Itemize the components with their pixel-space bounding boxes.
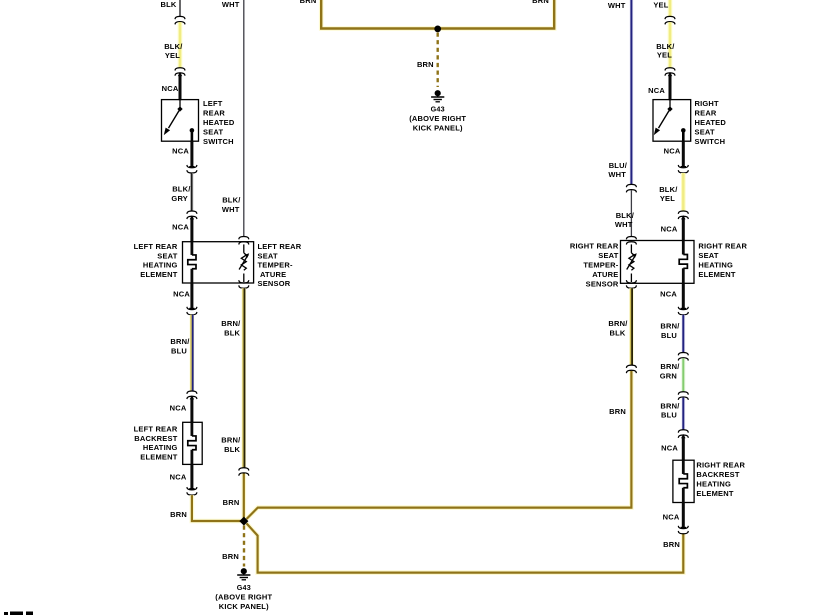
left rear seat heating element / temp sensor box (183, 242, 254, 283)
svg-text:SWITCH: SWITCH (203, 137, 234, 146)
connector (left BLK to BLK/YEL) (175, 16, 185, 19)
wire NCA from right switch output (682, 141, 685, 167)
footer text fragment (clipped) (4, 612, 8, 615)
svg-text:BLK/: BLK/ (659, 185, 678, 194)
svg-text:YEL: YEL (165, 51, 180, 60)
wire BLK/YEL left (178, 22, 183, 67)
connector (BLK/GRY to NCA) (187, 211, 197, 214)
wire BRN into ground junction (242, 474, 247, 519)
svg-text:WHT: WHT (222, 205, 240, 214)
wire BRN left backrest to ground junction (192, 495, 242, 521)
svg-text:HEATING: HEATING (143, 443, 178, 452)
svg-text:BLU: BLU (661, 331, 677, 340)
wire BRN/BLU left (190, 315, 195, 391)
wire NCA from right backrest element (682, 503, 685, 528)
ground G43 (bottom) (241, 568, 247, 574)
temperature sensor symbol (right rear seat) (630, 244, 632, 253)
svg-text:BRN: BRN (532, 0, 549, 5)
svg-text:SWITCH: SWITCH (695, 137, 726, 146)
wire NCA from left backrest element (190, 464, 193, 489)
wire BRN/BLU right lower (681, 398, 685, 430)
svg-text:GRY: GRY (171, 194, 188, 203)
svg-text:YEL: YEL (653, 1, 668, 10)
wire NCA into right backrest element (682, 437, 685, 461)
temperature sensor symbol (left rear seat) (243, 244, 245, 253)
ground G43 (top) (435, 90, 441, 96)
svg-text:BLK: BLK (609, 329, 625, 338)
svg-text:YEL: YEL (660, 194, 675, 203)
svg-text:SEAT: SEAT (157, 251, 177, 260)
svg-text:NCA: NCA (648, 86, 665, 95)
connector (right sensor top) (626, 237, 636, 240)
connector (right switch out) (678, 165, 688, 168)
svg-text:TEMPER-: TEMPER- (583, 261, 618, 270)
svg-text:NCA: NCA (162, 84, 179, 93)
svg-text:NCA: NCA (172, 147, 189, 156)
wire BRN bottom run to right sensor (247, 371, 632, 519)
node on top bus (434, 26, 441, 33)
svg-text:BRN/: BRN/ (660, 322, 680, 331)
connector (BRN/BLK to BRN left) (239, 468, 249, 471)
svg-text:LEFT REAR: LEFT REAR (258, 242, 302, 251)
wire BRN dashed to ground G43 (top) (437, 33, 439, 88)
svg-text:TEMPER-: TEMPER- (258, 261, 293, 270)
svg-text:BRN: BRN (417, 60, 434, 69)
wire NCA into left switch (179, 74, 182, 100)
svg-text:NCA: NCA (664, 147, 681, 156)
svg-text:BLK/: BLK/ (164, 42, 183, 51)
svg-text:NCA: NCA (661, 444, 678, 453)
svg-text:ELEMENT: ELEMENT (696, 489, 733, 498)
connector (left element to BRN/BLU) (187, 307, 197, 310)
svg-text:ATURE: ATURE (592, 270, 618, 279)
svg-text:KICK PANEL): KICK PANEL) (219, 602, 269, 611)
svg-text:ELEMENT: ELEMENT (140, 270, 177, 279)
wire BRN/BLK left sensor output (242, 288, 247, 467)
connector (right backrest out) (678, 526, 688, 529)
svg-text:SENSOR: SENSOR (258, 279, 291, 288)
svg-text:BLU: BLU (171, 346, 187, 355)
svg-text:BLK/: BLK/ (222, 196, 241, 205)
wire YEL (right, from fuse block) (668, 0, 673, 16)
right rear seat heating element / temp sensor box (621, 241, 695, 284)
svg-text:NCA: NCA (661, 225, 678, 234)
wire NCA from right heating element (682, 283, 685, 309)
svg-text:REAR: REAR (695, 108, 717, 117)
right rear heated seat switch box (653, 100, 691, 142)
svg-text:NCA: NCA (663, 513, 680, 522)
svg-text:BACKREST: BACKREST (696, 470, 739, 479)
svg-text:KICK PANEL): KICK PANEL) (413, 124, 463, 133)
wire BRN dashed to ground G43 (bottom) (243, 526, 245, 567)
svg-text:(ABOVE RIGHT: (ABOVE RIGHT (409, 114, 466, 123)
connector (left sensor top) (239, 237, 249, 240)
svg-text:NCA: NCA (170, 404, 187, 413)
svg-text:YEL: YEL (657, 51, 672, 60)
wire NCA from left heating element (190, 283, 193, 309)
svg-text:BACKREST: BACKREST (134, 434, 177, 443)
switch contacts (right rear heated seat switch) (669, 100, 671, 108)
svg-text:NCA: NCA (173, 289, 190, 298)
wire BRN/BLK right sensor output (629, 288, 634, 365)
wire BRN bottom run to right backrest (247, 523, 684, 572)
connector (left BLK/YEL to switch pigtail) (175, 68, 185, 71)
svg-text:BRN/: BRN/ (660, 402, 680, 411)
svg-text:REAR: REAR (203, 108, 225, 117)
svg-text:WHT: WHT (608, 170, 626, 179)
svg-text:BLU: BLU (661, 410, 677, 419)
svg-text:SENSOR: SENSOR (586, 280, 619, 289)
svg-text:BRN/: BRN/ (608, 319, 628, 328)
heating element symbol (left rear backrest) (190, 422, 193, 436)
svg-text:BLK: BLK (224, 329, 240, 338)
wire color and component labels (134, 0, 748, 611)
svg-text:BRN: BRN (609, 407, 626, 416)
heating element symbol (left rear seat) (190, 242, 193, 255)
connector (BRN/BLU to BRN/GRN) (678, 353, 688, 356)
svg-text:G43: G43 (431, 105, 445, 114)
wire BRN/BLU right upper (681, 315, 685, 353)
wire BLK/YEL right upper (668, 22, 673, 67)
svg-text:WHT: WHT (222, 0, 240, 9)
svg-text:SEAT: SEAT (203, 127, 223, 136)
connector (right BLK/YEL to NCA) (678, 211, 688, 214)
svg-text:NCA: NCA (170, 473, 187, 482)
svg-text:(ABOVE RIGHT: (ABOVE RIGHT (215, 593, 272, 602)
svg-text:ELEMENT: ELEMENT (698, 270, 735, 279)
svg-text:BRN/: BRN/ (221, 435, 241, 444)
svg-text:BRN/: BRN/ (660, 362, 680, 371)
svg-text:SEAT: SEAT (698, 251, 718, 260)
connector (BLU/WHT to BLK/WHT) (626, 184, 636, 187)
heating element symbol (right rear seat) (682, 241, 685, 255)
svg-text:SEAT: SEAT (695, 127, 715, 136)
right rear backrest heating element box (673, 460, 694, 502)
svg-text:LEFT: LEFT (203, 99, 223, 108)
wire BRN top bus (321, 0, 554, 29)
wire BRN/GRN right (681, 358, 685, 391)
switch contacts (left rear heated seat switch) (179, 100, 181, 108)
svg-text:ATURE: ATURE (260, 270, 286, 279)
svg-text:RIGHT REAR: RIGHT REAR (698, 242, 747, 251)
svg-text:LEFT REAR: LEFT REAR (134, 242, 178, 251)
wire BLK/WHT right (630, 190, 632, 236)
svg-text:NCA: NCA (172, 222, 189, 231)
svg-text:WHT: WHT (608, 1, 626, 10)
connector (left switch out) (187, 165, 197, 168)
wire BLU/WHT right sensor feed (630, 0, 634, 184)
wire NCA from left switch output (190, 141, 193, 167)
svg-text:BRN/: BRN/ (221, 319, 241, 328)
svg-text:HEATING: HEATING (143, 261, 178, 270)
wire NCA into right heating element (682, 218, 685, 241)
svg-text:BRN: BRN (170, 510, 187, 519)
connector (right element to BRN/BLU) (678, 307, 688, 310)
connector (right BLK/YEL to switch pigtail) (665, 68, 675, 71)
connector (right YEL to BLK/YEL) (665, 16, 675, 19)
connector (BRN/BLK to BRN right) (626, 365, 636, 368)
wire NCA into left heating element (190, 218, 193, 242)
svg-text:RIGHT: RIGHT (695, 99, 720, 108)
wire WHT / BLK-WHT left sensor feed (243, 0, 245, 236)
svg-text:BRN: BRN (663, 540, 680, 549)
connector (left backrest out) (187, 487, 197, 490)
connector (right sensor bottom) (626, 280, 636, 283)
wire NCA into right switch (669, 74, 672, 100)
svg-text:BLK: BLK (224, 445, 240, 454)
svg-text:BRN/: BRN/ (170, 337, 190, 346)
svg-text:BRN: BRN (300, 0, 317, 5)
connector (BRN/BLU to NCA right backrest) (678, 430, 688, 433)
svg-text:BRN: BRN (222, 552, 239, 561)
svg-text:RIGHT REAR: RIGHT REAR (696, 461, 745, 470)
svg-text:HEATED: HEATED (203, 118, 235, 127)
ground junction node (bottom) (239, 517, 248, 526)
svg-text:RIGHT REAR: RIGHT REAR (570, 242, 619, 251)
heating element symbol (right rear backrest) (682, 460, 685, 474)
svg-text:BRN: BRN (223, 498, 240, 507)
connector (left sensor bottom) (239, 280, 249, 283)
connector (BRN/BLU to NCA left backrest) (187, 391, 197, 394)
svg-text:LEFT REAR: LEFT REAR (134, 424, 178, 433)
svg-text:HEATING: HEATING (698, 261, 733, 270)
connector (BRN/GRN to BRN/BLU) (678, 392, 688, 395)
wire NCA into left backrest element (190, 398, 193, 423)
left rear heated seat switch box (162, 100, 199, 142)
left rear backrest heating element box (183, 422, 203, 464)
svg-text:BLU/: BLU/ (609, 161, 628, 170)
svg-text:SEAT: SEAT (598, 251, 618, 260)
svg-text:BLK/: BLK/ (616, 211, 635, 220)
svg-text:SEAT: SEAT (258, 251, 278, 260)
svg-text:ELEMENT: ELEMENT (140, 453, 177, 462)
svg-text:WHT: WHT (615, 220, 633, 229)
svg-text:HEATED: HEATED (695, 118, 727, 127)
svg-text:G43: G43 (237, 583, 251, 592)
wire BLK/GRY left (192, 173, 194, 211)
svg-text:GRN: GRN (660, 372, 677, 381)
svg-text:BLK/: BLK/ (172, 184, 191, 193)
wire BLK/YEL right lower (681, 173, 686, 211)
wire BLK (left, from fuse block) (179, 0, 181, 16)
svg-text:NCA: NCA (660, 289, 677, 298)
svg-text:BLK: BLK (160, 0, 176, 9)
svg-text:HEATING: HEATING (696, 480, 731, 489)
